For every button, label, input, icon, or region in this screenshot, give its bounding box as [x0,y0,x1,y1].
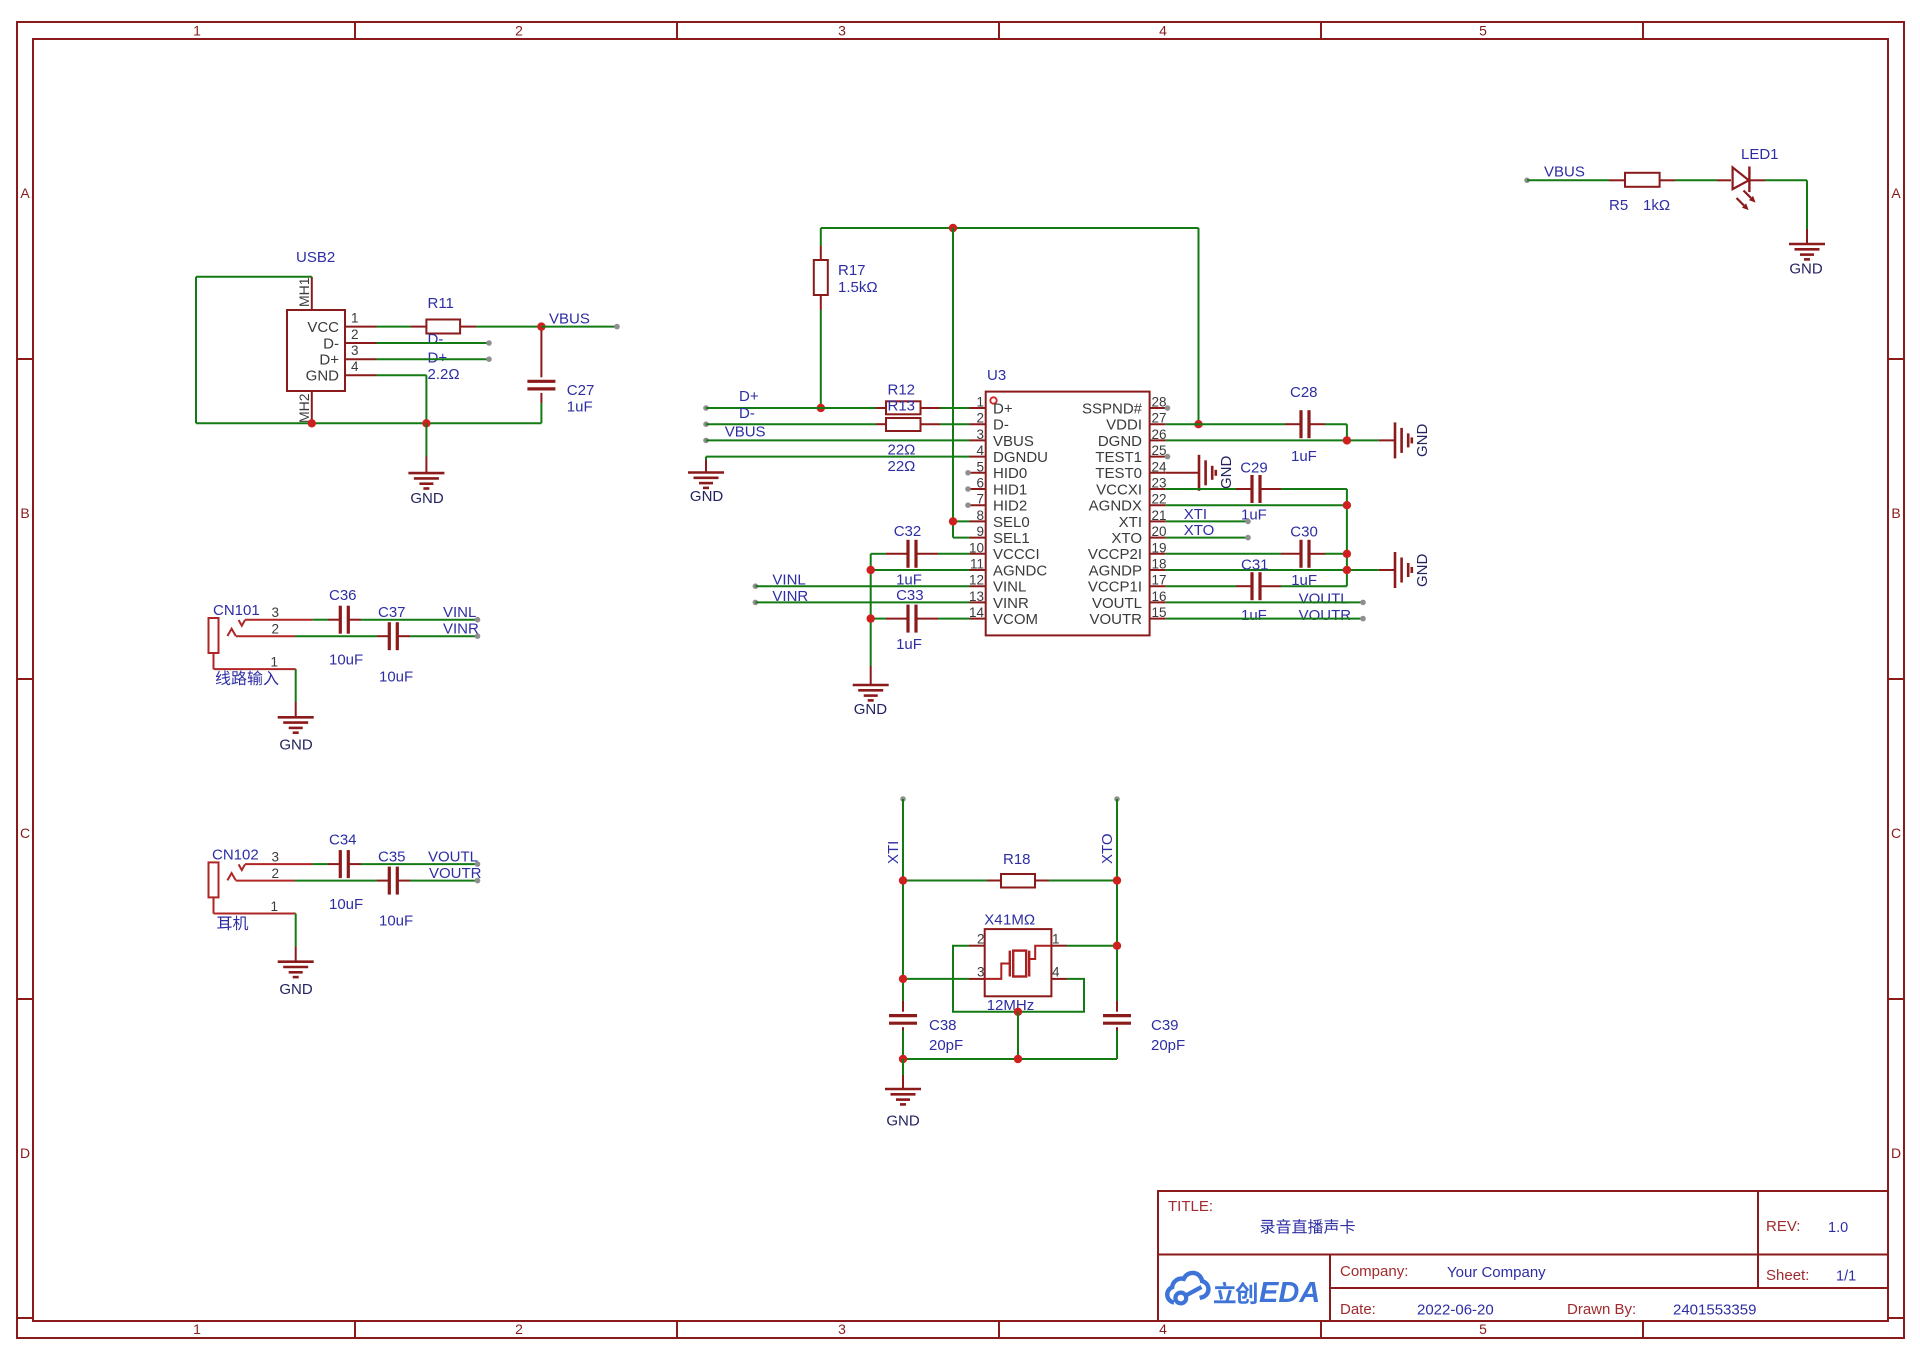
wire AGNDC [871,569,970,571]
svg-text:VBUS: VBUS [549,311,590,328]
ground GND below C33 [853,666,889,718]
svg-text:5: 5 [976,459,984,474]
ground GND DGNDU [688,473,724,506]
svg-text:AGNDC: AGNDC [993,562,1047,579]
wire VCCP1I to C31 [1166,585,1347,587]
svg-text:VCCXI: VCCXI [1096,481,1142,498]
svg-text:1MΩ: 1MΩ [1003,912,1035,929]
svg-text:DGNDU: DGNDU [993,449,1048,466]
svg-text:AGNDX: AGNDX [1089,498,1142,515]
svg-text:C36: C36 [329,587,357,604]
ground GND TEST0 [1199,455,1235,491]
svg-text:USB2: USB2 [296,249,335,266]
junction top rail [949,224,957,232]
connector CN102 [209,847,313,931]
unconnected pin SSPND# [1165,405,1171,411]
wire USB ground loop [196,277,541,424]
capacitor C35 [378,848,413,929]
net label VBUS left [725,424,766,441]
svg-text:SEL0: SEL0 [993,514,1030,531]
net label XTI [1184,506,1207,523]
wire CN102 pin1 to GND [295,914,297,962]
junction AGNDC [867,566,875,574]
ground GND LED [1789,229,1825,278]
svg-text:16: 16 [1152,589,1167,604]
svg-text:1uF: 1uF [896,636,922,653]
wire VOUTR pin15 [1166,616,1366,622]
net label VOUTL flag [428,849,478,866]
svg-text:Sheet:: Sheet: [1766,1267,1809,1284]
junction VDDI [1194,420,1202,428]
capacitor C37 [378,604,413,686]
capacitor C32 [894,523,922,589]
junction R17 D+ [817,404,825,412]
svg-text:D-: D- [739,405,755,422]
svg-text:1uF: 1uF [1291,448,1317,465]
svg-text:GND: GND [1414,424,1431,458]
LED LED1 [1717,146,1779,210]
logo EasyEDA [1167,1273,1320,1309]
svg-text:2: 2 [271,866,279,881]
svg-text:23: 23 [1152,476,1167,491]
svg-text:MH2: MH2 [296,393,312,423]
svg-text:EDA: EDA [1259,1277,1320,1309]
svg-text:R11: R11 [428,295,454,312]
junction XTO pin1 [1113,942,1121,950]
svg-text:10uF: 10uF [379,669,413,686]
svg-text:1: 1 [351,311,359,326]
svg-text:SSPND#: SSPND# [1082,400,1143,417]
svg-text:VINL: VINL [993,579,1026,596]
svg-text:1: 1 [1052,932,1060,947]
svg-text:2401553359: 2401553359 [1673,1302,1756,1319]
net label D+ left [739,388,759,405]
net label XTO [1184,522,1215,539]
net label VOUTL [1299,591,1349,608]
svg-text:D+: D+ [993,400,1013,417]
svg-text:GND: GND [886,1113,920,1130]
svg-text:C30: C30 [1290,524,1318,541]
junction VCCP2I [1343,550,1351,558]
resistor R17 [814,246,878,310]
svg-text:VOUTR: VOUTR [429,865,482,882]
wire CN102 pin2 to C35 [295,878,480,884]
junction bottom rail [1014,1055,1022,1063]
svg-text:U3: U3 [987,367,1006,384]
svg-text:DGND: DGND [1098,433,1142,450]
svg-text:VBUS: VBUS [993,433,1034,450]
svg-text:VCCP2I: VCCP2I [1088,546,1142,563]
svg-text:3: 3 [271,605,279,620]
net label VOUTR flag [429,865,482,882]
junction SEL0 [949,517,957,525]
ground GND right of DGND [1379,422,1431,458]
net label D- [428,331,444,348]
svg-text:20pF: 20pF [929,1037,963,1054]
net label VINL [772,572,805,589]
wire XTI pin21 [1166,519,1251,525]
wire XTO vertical [1116,799,1118,1059]
junction XTO R18 [1113,876,1121,884]
svg-text:C: C [1891,825,1901,841]
wire VBUS to R5 [1527,179,1717,181]
sheet [1766,1267,1856,1285]
svg-text:GND: GND [1414,554,1431,588]
net flag VBUS [537,311,620,331]
svg-text:REV:: REV: [1766,1218,1800,1235]
svg-text:20pF: 20pF [1151,1037,1185,1054]
svg-text:CN102: CN102 [212,847,259,864]
svg-text:1: 1 [193,23,201,39]
svg-text:1.0: 1.0 [1828,1220,1848,1236]
svg-text:20: 20 [1152,524,1167,539]
IC U3 [969,367,1167,635]
svg-text:A: A [1891,185,1901,201]
capacitor C31 [1241,557,1269,624]
svg-text:3: 3 [976,427,984,442]
svg-text:C34: C34 [329,831,357,848]
svg-text:D-: D- [323,335,339,352]
svg-text:XTI: XTI [885,841,902,864]
svg-text:D+: D+ [319,352,339,369]
svg-text:Your Company: Your Company [1447,1264,1546,1281]
svg-text:LED1: LED1 [1741,146,1779,163]
net label VOUTR [1299,607,1352,624]
wire VCCXI to C29 [1166,489,1347,586]
svg-text:2: 2 [977,932,985,947]
svg-text:1uF: 1uF [1241,607,1267,624]
svg-text:C38: C38 [929,1017,957,1034]
svg-text:2: 2 [976,411,984,426]
svg-text:VOUTL: VOUTL [1092,595,1142,612]
svg-text:10uF: 10uF [329,896,363,913]
wire AGNDX [1166,504,1347,506]
svg-text:VCC: VCC [307,319,339,336]
svg-text:C29: C29 [1240,460,1268,477]
svg-text:1: 1 [976,395,984,410]
svg-text:VCCCI: VCCCI [993,546,1040,563]
capacitor C29 [1240,460,1268,524]
junction XTI R18 [899,876,907,884]
svg-text:D+: D+ [739,388,759,405]
wire bottom rail [903,1058,1117,1060]
svg-text:HID1: HID1 [993,481,1027,498]
connector CN101 [209,602,313,685]
svg-text:6: 6 [976,476,984,491]
capacitor C33 [896,587,924,653]
svg-text:3: 3 [271,850,279,865]
svg-text:22: 22 [1152,492,1167,507]
svg-text:CN101: CN101 [213,602,260,619]
svg-text:17: 17 [1152,573,1167,588]
crystal X4 [969,912,1067,1015]
svg-text:C31: C31 [1241,557,1269,574]
junction XTI bottom [899,1055,907,1063]
svg-text:27: 27 [1152,411,1167,426]
svg-text:4: 4 [1052,965,1060,980]
svg-text:1: 1 [270,899,278,914]
svg-text:C: C [20,825,30,841]
wire VDD top rail [821,228,1199,424]
svg-text:11: 11 [970,557,984,572]
svg-text:2: 2 [515,1321,523,1337]
ground GND right of AGNDP [1379,552,1431,588]
svg-text:GND: GND [1789,261,1823,278]
svg-text:R18: R18 [1003,851,1031,868]
svg-text:4: 4 [351,359,359,374]
svg-text:X4: X4 [984,912,1002,929]
svg-text:C27: C27 [567,382,595,399]
svg-text:MH1: MH1 [296,277,312,307]
svg-text:1: 1 [270,655,278,670]
svg-text:D: D [20,1145,30,1161]
wire D+ [377,356,492,362]
svg-text:2022-06-20: 2022-06-20 [1417,1302,1494,1319]
title block [1158,1191,1888,1321]
svg-text:D+: D+ [428,350,448,367]
resistor R5 [1609,173,1670,214]
svg-text:XTI: XTI [1119,514,1142,531]
svg-text:1kΩ: 1kΩ [1643,197,1670,214]
wire VBUS to U3 [703,438,969,444]
wire TEST0 to ground [1166,472,1199,474]
svg-text:TITLE:: TITLE: [1168,1198,1213,1215]
svg-text:VBUS: VBUS [725,424,766,441]
capacitor C27 [527,327,594,424]
svg-text:D: D [1891,1145,1901,1161]
company [1340,1263,1546,1281]
wire D- [377,340,492,346]
junction MH2 [308,419,316,427]
junction GND node [422,419,430,427]
svg-text:VINL: VINL [443,604,476,621]
ground GND CN102 [278,962,314,998]
wire D- to R13 [703,421,969,427]
net label D+ [428,350,448,367]
svg-text:2.2Ω: 2.2Ω [428,366,460,383]
resistor R12 [886,382,921,415]
svg-text:4: 4 [1159,1321,1167,1337]
svg-text:GND: GND [1218,456,1235,490]
svg-text:VDDI: VDDI [1106,417,1142,434]
net label VINR [772,588,808,605]
svg-text:1.5kΩ: 1.5kΩ [838,279,878,296]
svg-text:12: 12 [969,573,984,588]
junction VCOM [867,614,875,622]
svg-text:GND: GND [690,488,724,505]
svg-text:C32: C32 [894,523,922,540]
unconnected pin TEST1 [1165,454,1171,460]
revision [1766,1218,1848,1236]
svg-text:10: 10 [969,540,984,555]
svg-text:3: 3 [977,965,985,980]
svg-text:GND: GND [279,737,313,754]
capacitor C39 [1103,1001,1185,1054]
junction AGNDP [1343,566,1351,574]
svg-text:1/1: 1/1 [1836,1269,1856,1285]
unconnected pins HID0 HID1 HID2 [965,470,971,508]
wire SEL vertical [953,228,970,538]
resistor R13 [886,398,921,476]
svg-text:VOUTR: VOUTR [1090,611,1143,628]
wire VOUTL pin16 [1166,600,1366,606]
net label VINR flag [443,621,479,638]
svg-text:2: 2 [515,23,523,39]
svg-text:7: 7 [976,492,984,507]
svg-text:28: 28 [1152,395,1167,410]
svg-text:26: 26 [1152,427,1167,442]
svg-text:R5: R5 [1609,197,1628,214]
wire CN101 pin2 to C37 [295,633,480,639]
wire VCCCI to C32 [871,554,970,666]
svg-text:VOUTL: VOUTL [428,849,478,866]
wire LED to GND [1765,180,1807,229]
svg-text:B: B [1891,505,1900,521]
capacitor C30 [1290,524,1318,590]
capacitor C28 [1290,384,1318,465]
capacitor C36 [329,587,363,669]
svg-text:4: 4 [1159,23,1167,39]
date [1340,1301,1494,1319]
svg-text:XTO: XTO [1184,522,1215,539]
junction crystal loop [1014,1008,1022,1016]
svg-text:C33: C33 [896,587,924,604]
svg-text:15: 15 [1152,605,1167,620]
svg-text:2: 2 [271,622,279,637]
connector USB2 [287,249,377,423]
wire VCC pin1 to R11 to VBUS [377,326,542,328]
svg-text:5: 5 [1479,23,1487,39]
wire VINL pin12 [753,583,970,589]
svg-text:GND: GND [410,490,444,507]
svg-text:XTO: XTO [1099,833,1116,864]
svg-text:18: 18 [1152,557,1167,572]
wire CN101 pin1 to GND [295,669,297,717]
svg-text:TEST1: TEST1 [1095,449,1142,466]
svg-text:VCCP1I: VCCP1I [1088,579,1142,596]
svg-text:3: 3 [351,343,359,358]
svg-text:Company:: Company: [1340,1263,1408,1280]
svg-text:D-: D- [993,417,1009,434]
svg-text:VINR: VINR [993,595,1029,612]
wire XTI vertical [902,799,904,1059]
svg-text:TEST0: TEST0 [1095,465,1142,482]
wire CN102 pin3 to C34 [313,861,481,867]
ground GND below USB [408,423,444,507]
wire crystal pin3 to XTI [903,978,969,980]
svg-text:1uF: 1uF [567,399,593,416]
svg-text:10uF: 10uF [329,652,363,669]
svg-text:1: 1 [193,1321,201,1337]
svg-text:8: 8 [976,508,984,523]
svg-text:25: 25 [1152,443,1167,458]
svg-text:C28: C28 [1290,384,1318,401]
svg-text:4: 4 [976,443,984,458]
svg-text:Date:: Date: [1340,1301,1376,1318]
svg-text:3: 3 [838,1321,846,1337]
wire CN101 pin3 to C36 [313,617,481,623]
wire D+ to R12 [703,405,969,411]
svg-text:24: 24 [1152,459,1168,474]
svg-text:VBUS: VBUS [1544,164,1585,181]
wire crystal pins 2 and 4 loop [953,946,1084,1012]
svg-text:SEL1: SEL1 [993,530,1030,547]
svg-text:D-: D- [428,331,444,348]
svg-text:GND: GND [306,368,340,385]
ground GND crystal [885,1059,921,1130]
net flag XTI vertical [885,796,906,864]
svg-text:B: B [20,505,29,521]
wire DGND [1166,439,1379,441]
wire VCOM to C33 [871,618,970,620]
wire VDDI to C28 [1166,424,1347,440]
svg-text:R12: R12 [888,382,916,399]
svg-text:Drawn By:: Drawn By: [1567,1301,1636,1318]
svg-text:VOUTR: VOUTR [1299,607,1352,624]
wire GND pin4 [377,375,427,423]
net flag VBUS LED [1524,164,1585,184]
svg-text:VOUTL: VOUTL [1299,591,1349,608]
svg-text:AGNDP: AGNDP [1089,562,1142,579]
svg-text:C37: C37 [378,604,406,621]
svg-text:HID2: HID2 [993,498,1027,515]
wire AGNDP [1166,569,1379,571]
svg-text:XTI: XTI [1184,506,1207,523]
drawn by [1567,1301,1756,1319]
svg-text:C35: C35 [378,848,406,865]
svg-text:VINR: VINR [443,621,479,638]
svg-text:13: 13 [969,589,984,604]
net label VINL flag [443,604,476,621]
svg-text:VCOM: VCOM [993,611,1038,628]
svg-text:10uF: 10uF [379,913,413,930]
wire loop to bottom rail [1017,1012,1019,1059]
svg-text:XTO: XTO [1111,530,1142,547]
junction DGND C28 [1343,436,1351,444]
junction AGNDX [1343,501,1351,509]
svg-text:22Ω: 22Ω [888,458,916,475]
svg-text:21: 21 [1152,508,1167,523]
wire VCCP2I to C30 [1166,553,1347,555]
svg-text:3: 3 [838,23,846,39]
svg-text:19: 19 [1152,540,1167,555]
resistor R18 [903,851,1117,888]
svg-text:A: A [20,185,30,201]
wire XTO pin20 [1166,535,1251,541]
net flag XTO vertical [1099,796,1120,864]
svg-text:2: 2 [351,327,359,342]
wire DGNDU to ground [706,457,970,473]
wire crystal pin1 to XTO [1067,945,1117,947]
svg-text:R13: R13 [888,398,916,415]
title text [1168,1198,1355,1234]
svg-text:GND: GND [279,981,313,998]
svg-text:14: 14 [969,605,985,620]
svg-text:R17: R17 [838,262,866,279]
svg-text:9: 9 [976,524,984,539]
svg-text:HID0: HID0 [993,465,1027,482]
capacitor C34 [329,831,363,913]
svg-text:GND: GND [854,701,888,718]
wire R17 to D+ [820,310,822,408]
resistor R11 [426,295,460,383]
ground GND CN101 [278,717,314,753]
svg-text:5: 5 [1479,1321,1487,1337]
svg-text:C39: C39 [1151,1017,1179,1034]
capacitor C38 [889,1001,963,1054]
junction XTI pin3 [899,975,907,983]
wire VINR pin13 [753,600,970,606]
